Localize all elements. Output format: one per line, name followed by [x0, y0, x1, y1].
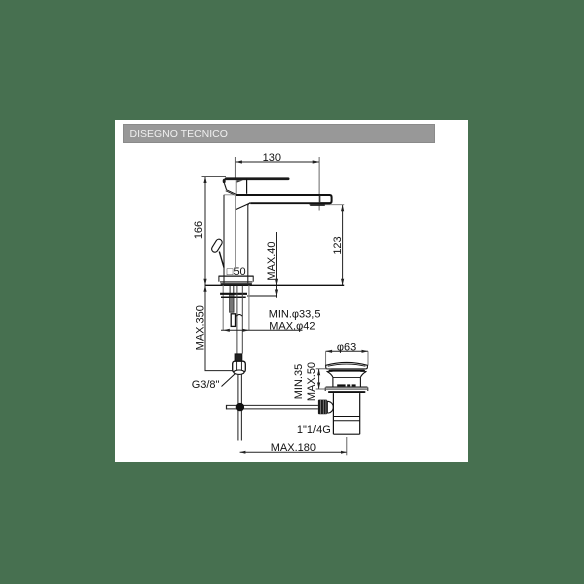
dimension MIN.35 MAX.50: [293, 362, 331, 401]
cap underside lips: [326, 370, 332, 372]
white drawing canvas: [115, 120, 468, 462]
faucet body column: [224, 195, 248, 276]
drain dome cap: [326, 362, 368, 368]
faucet lever handle: [223, 177, 290, 183]
dimension MAX.180: [240, 437, 347, 455]
faucet spout: [224, 195, 330, 210]
hole diameter dim line: [221, 329, 303, 332]
cap shadow band: [329, 370, 366, 372]
dimension 130 left extension line: [234, 157, 236, 178]
svg-text:130: 130: [263, 152, 281, 164]
G3/8 leader line: [222, 374, 236, 387]
threaded stud lower: [231, 314, 235, 327]
threaded stud upper: [229, 286, 231, 294]
mounting hole walls: [223, 285, 249, 330]
flexible hose: [236, 286, 242, 354]
svg-text:166: 166: [193, 221, 205, 239]
faucet base column edge extensions: [223, 276, 225, 284]
svg-text:MIN.35: MIN.35: [293, 364, 305, 399]
mounting nut: [220, 294, 247, 298]
svg-text:φ63: φ63: [337, 341, 356, 353]
side lever joystick: [210, 238, 224, 268]
dimension 130 right extension line: [318, 157, 320, 211]
faucet base top plate line: [219, 275, 254, 277]
drain flange: [325, 387, 368, 393]
dimension 123 dim line: [332, 205, 344, 285]
dimension 166 dim line: [193, 177, 206, 286]
copper supply pipe: [238, 375, 242, 441]
countertop deck line: [205, 284, 345, 286]
svg-text:MIN.φ33,5: MIN.φ33,5: [269, 309, 321, 321]
dimension 123 top extension line: [309, 204, 344, 206]
dimension MAX.40 dim line: [266, 232, 278, 298]
faucet base bottom bar: [221, 283, 252, 285]
faucet base mid line: [220, 281, 252, 283]
drain diameter 63 dimension: [326, 341, 368, 365]
rod ball joint: [236, 403, 244, 411]
rod knurled knob: [318, 400, 333, 415]
drain tailpiece: [333, 393, 359, 434]
svg-text:MAX.350: MAX.350: [195, 305, 207, 350]
svg-text:1"1/4G: 1"1/4G: [297, 424, 331, 436]
faucet aerator tip: [320, 195, 332, 203]
dimension 166 top extension line: [202, 176, 227, 178]
MAX.40 bottom reference line (nut bottom): [247, 295, 277, 297]
pop-up rod: [227, 405, 318, 410]
overflow slots: [337, 384, 355, 386]
header bar DISEGNO TECNICO: [123, 124, 435, 142]
svg-text:MAX.50: MAX.50: [306, 362, 318, 401]
G3/8 connector nut: [233, 354, 246, 375]
svg-text:G3/8": G3/8": [192, 379, 220, 391]
svg-text:MAX.40: MAX.40: [266, 241, 278, 280]
svg-text:MAX.180: MAX.180: [271, 442, 316, 454]
faucet head (mixer cartridge housing): [224, 179, 246, 195]
dimension 130 dim line: [235, 152, 319, 164]
svg-text:123: 123: [332, 236, 344, 254]
dimension MAX.350 dim line: [195, 285, 235, 370]
svg-text:MAX.φ42: MAX.φ42: [269, 320, 315, 332]
drain body neck: [333, 377, 361, 387]
drain trumpet neck: [327, 372, 366, 378]
